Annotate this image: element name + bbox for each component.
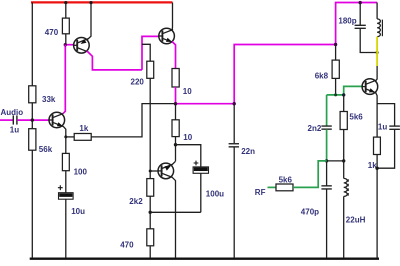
resistor 2k2 [147,179,154,197]
pin Q5 emitter arrow [369,88,375,92]
wire 22n to ground rail [233,147,235,258]
wire top-right net (magenta) to tank [336,3,378,45]
node junction dot on rail at Q2 emitter [89,1,92,4]
capacitor 22n [229,144,239,147]
wire 180p top lead [359,3,361,26]
resistor 56k [29,129,36,151]
wire tap to 220 [142,44,150,61]
resistor 5k6 vertical [340,112,347,130]
resistor 5k6 horizontal [276,184,293,191]
capacitor 10u electrolytic [58,185,73,199]
svg-text:10: 10 [183,133,192,142]
wire down to 470p [326,161,328,186]
transistor Q3 [159,28,175,44]
svg-text:2k2: 2k2 [129,197,143,206]
resistor 1k horizontal [74,134,91,141]
resistor 33k [29,86,36,103]
pin Q3 emitter arrow [166,38,172,42]
wire 5k6 top lead [343,95,345,112]
wire green down to 2n2 [326,95,328,126]
svg-text:10u: 10u [71,207,85,216]
wire Q2 emitter to rail [87,3,91,41]
svg-text:2n2: 2n2 [308,124,322,133]
wire rail to 470 [65,2,67,18]
svg-text:10: 10 [183,87,192,96]
wire 100u return row [150,211,201,213]
svg-text:1u: 1u [378,123,387,132]
resistor 6k8 [332,60,339,78]
wire 10u to ground rail [65,199,67,258]
wire Q5 emitter down [375,92,377,137]
svg-text:RF: RF [255,188,266,197]
node junction dot on yellow [376,51,379,54]
resistor 10 (Q4 collector) [172,120,179,137]
wire Q4 bottom lead to ground rail [171,176,175,258]
wire 220 down to Q4 base node and 2k2 [149,78,151,178]
svg-text:100: 100 [74,167,88,176]
node junction dot emitter/1k tap [64,135,67,138]
svg-text:6k8: 6k8 [315,72,329,81]
svg-text:180p: 180p [338,17,356,26]
inductor 22uH [344,178,348,196]
wire 470p to ground rail [326,189,328,258]
wire Q1 emitter down [63,126,66,153]
node junction dot 1k/1u [375,167,378,170]
capacitor 1u input coupling [13,115,17,124]
node junction dot base divider [31,118,34,121]
pin Q1 emitter arrow [57,122,63,126]
wire 1u down [377,129,395,168]
wire 1k to ground rail [376,155,378,258]
wire Q1 collector up (magenta) [63,44,65,114]
resistor 470 top [62,18,69,34]
wire emitter node right (magenta) [176,103,235,105]
resistor 10 (Q3 emitter) [172,69,179,88]
wire yellow to Q5 collector [375,66,377,81]
node junction dot 2k2/100u return [149,211,152,214]
svg-text:33k: 33k [42,95,56,104]
svg-text:56k: 56k [39,145,53,154]
wire Q3 emitter down (magenta) [172,42,175,69]
wire 22uH top lead [343,161,345,179]
node junction dot RF node [325,159,328,162]
inductor tank coil [377,19,380,37]
wire Q2 base from node (magenta) [65,44,73,46]
wire bottom ground rail [30,258,379,260]
capacitor 470p [321,186,331,189]
wire V+ rail to 33k [31,2,33,86]
pin Q4 top lead arrow (points outward) [165,166,171,171]
svg-text:1u: 1u [10,125,19,134]
wire 22uH to ground rail [343,196,345,258]
wire audio input (magenta) [0,119,13,121]
resistor 220 [147,61,154,78]
node junction dot on rail at 470 [64,1,67,4]
svg-text:Audio: Audio [1,108,24,117]
resistor 100 [62,153,69,170]
wire magenta node down to Q1 collector [64,45,66,46]
svg-text:5k6: 5k6 [279,175,293,184]
wire RF lead (green) [268,186,277,188]
wire 180p bottom to yellow [360,28,377,52]
node junction dot 22n tap [233,102,236,105]
wire Q4 base from divider [150,170,158,172]
wire Q3 collector to rail end [171,3,173,31]
wire 6k8 top lead [335,45,337,61]
wire 1k feedback row [91,104,175,137]
svg-text:22uH: 22uH [346,216,366,225]
transistor Q1 [49,112,65,128]
svg-text:470: 470 [45,28,59,37]
svg-text:1k: 1k [79,124,88,133]
node junction dot Q4 collector node [174,143,177,146]
wire 100u top lead [176,145,201,167]
wire Q4 top lead [171,161,175,165]
node junction dot emitter node [174,102,177,105]
svg-text:470: 470 [120,241,134,250]
wire 1u to Q1 base (magenta) [17,119,49,121]
node junction dot Q1 collector / 470 / Q2 base [64,43,67,46]
transistor Q5 [362,79,378,95]
wire 470 to Q2 base node [65,34,67,45]
pin Q2 emitter arrow (points to base) [81,39,87,44]
node junction dot magenta/6k8 [334,43,337,46]
wire 2n2 down to RF node (green) [326,129,328,161]
wire top supply rail (red) [31,1,173,3]
wire coil to Q5 collector (yellow) [376,37,378,66]
resistor 1k right [374,137,381,154]
capacitor 100u electrolytic [193,161,208,174]
wire 56k to ground rail [31,150,33,258]
wire 10 to emitter node (magenta) [175,87,177,104]
wire green node row [327,94,344,96]
svg-text:100u: 100u [206,190,224,199]
capacitor 2n2 [321,126,331,129]
node junction dot 6k8/green [334,93,337,96]
svg-text:22n: 22n [241,147,255,156]
wire green to Q5 base [344,86,363,95]
wire Q2 collector down (magenta) [87,51,142,70]
svg-text:5k6: 5k6 [349,113,363,122]
svg-text:470p: 470p [301,207,319,216]
wire 33k to base node [31,103,33,129]
transistor Q2 (PNP) [74,38,90,54]
wire 10 to Q4 collector node [175,137,177,162]
wire emitter node down to 10 [175,104,177,120]
wire emitter branch to 1u [377,104,395,127]
wire emitter node up-right (magenta) to tank row [234,45,335,104]
wire 1k left lead [66,136,74,138]
wire 2k2 to 470 [149,196,151,229]
wire 100 to 10u [65,171,67,193]
transistor Q4 [158,163,174,179]
wire node row to 22uH [327,160,344,162]
node junction dot green/5k6 [342,93,345,96]
capacitor 180p [355,25,366,28]
wire 100u bottom lead [200,173,202,212]
node junction dot 22uH tap [342,159,345,162]
node junction dot 180p tap [359,1,362,4]
wire magenta up to Q3 base [142,36,159,70]
wire 5k6 to RF node (green) [293,161,327,188]
wire 6k8 bottom lead [335,78,337,95]
wire tank top lead [376,3,378,19]
resistor 470 bottom [147,229,154,246]
wire 5k6 to node [343,130,345,161]
wire 470 to ground rail [149,246,151,258]
node junction dot Q4 base [149,170,152,173]
svg-text:220: 220 [131,77,145,86]
capacitor 1u right [389,126,400,129]
wire down to 22n [233,104,235,143]
